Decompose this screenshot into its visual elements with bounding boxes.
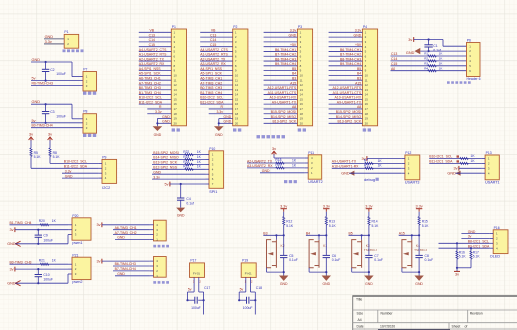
label below P2 bbox=[233, 128, 241, 131]
svg-text:R23: R23 bbox=[183, 155, 189, 159]
resistor R23 1K bbox=[185, 158, 193, 160]
svg-text:R20: R20 bbox=[39, 219, 45, 223]
wire P4 pin5 bbox=[329, 50, 363, 52]
resistor R13 5.1K bbox=[325, 212, 327, 217]
wire 3v row (pwm1) bbox=[15, 229, 68, 231]
wire gate row (K3) bbox=[349, 234, 369, 236]
svg-text:5v: 5v bbox=[32, 119, 36, 123]
svg-text:A3-USART2_RX: A3-USART2_RX bbox=[200, 62, 226, 66]
label below P1 bbox=[172, 128, 180, 131]
svg-text:TS865CJ: TS865CJ bbox=[414, 248, 427, 252]
svg-text:12: 12 bbox=[300, 83, 304, 87]
wire P4 pin20 bbox=[329, 122, 363, 124]
svg-text:R19: R19 bbox=[275, 163, 281, 167]
ground below P1 bbox=[153, 126, 163, 131]
label below P14 bbox=[153, 245, 169, 248]
svg-text:Sheet: Sheet bbox=[452, 324, 461, 328]
ground (K3) bbox=[364, 276, 373, 281]
svg-text:C15: C15 bbox=[149, 43, 155, 47]
wire P3 pin11 bbox=[264, 79, 298, 81]
wire P1 pin20 bbox=[157, 122, 171, 124]
wire P3 pin9 bbox=[264, 70, 298, 72]
label below P4 bbox=[363, 128, 371, 131]
svg-text:R25: R25 bbox=[183, 165, 189, 169]
wire P4 pin9 bbox=[329, 70, 363, 72]
svg-text:B10-I2C1_SCL: B10-I2C1_SCL bbox=[429, 155, 452, 159]
svg-text:GND: GND bbox=[32, 100, 41, 104]
svg-text:10/7/2020: 10/7/2020 bbox=[380, 324, 395, 328]
resistor R4 1K bbox=[391, 70, 467, 72]
svg-text:3v: 3v bbox=[29, 132, 33, 137]
svg-text:A7-TIM3_CH2: A7-TIM3_CH2 bbox=[200, 81, 222, 85]
svg-text:3v: 3v bbox=[272, 146, 276, 151]
transistor K1 bbox=[309, 240, 319, 268]
label below P7 bbox=[83, 92, 96, 95]
svg-text:B1-TIM3_CH4: B1-TIM3_CH4 bbox=[139, 91, 161, 95]
wire P17 pin2 bbox=[198, 277, 200, 292]
wire B7-TIM4-CH4 bbox=[113, 270, 150, 272]
wire P4 pin14 bbox=[329, 94, 363, 96]
junction C4 bbox=[180, 183, 182, 185]
svg-text:B5: B5 bbox=[357, 67, 361, 71]
wire P3 pin6 bbox=[264, 55, 298, 57]
caption minimal system base bbox=[257, 135, 286, 138]
svg-text:A6-TIM3_CH1: A6-TIM3_CH1 bbox=[115, 226, 137, 230]
svg-text:A11-USART1-CTS: A11-USART1-CTS bbox=[333, 91, 362, 95]
svg-text:B7-TIM4-CH2: B7-TIM4-CH2 bbox=[275, 53, 296, 57]
svg-text:5.1K: 5.1K bbox=[286, 224, 294, 228]
svg-text:B3: B3 bbox=[263, 232, 267, 236]
wire P1 pin1 bbox=[139, 31, 172, 33]
wire P1 ground drop bbox=[156, 119, 158, 127]
transistor K3 TS865CJ bbox=[352, 240, 362, 268]
wire P4 pin19 bbox=[329, 118, 363, 120]
capacitor C8 0.1uF bbox=[418, 235, 420, 255]
svg-text:FY-01: FY-01 bbox=[245, 272, 252, 276]
svg-text:GND: GND bbox=[280, 282, 288, 286]
resistor R24 1K bbox=[185, 163, 193, 165]
wire B6-TIM4-CH3 bbox=[113, 265, 150, 267]
svg-text:A1-USART2_RTS: A1-USART2_RTS bbox=[200, 53, 228, 57]
svg-text:20: 20 bbox=[174, 121, 178, 125]
svg-text:B11-I2C2_SDA: B11-I2C2_SDA bbox=[200, 100, 224, 104]
svg-text:3v: 3v bbox=[48, 132, 52, 137]
svg-text:B14-SPI2_MISO: B14-SPI2_MISO bbox=[153, 156, 179, 160]
svg-text:5v: 5v bbox=[165, 182, 169, 186]
wire emitter row (K4) bbox=[401, 268, 403, 272]
svg-text:C9: C9 bbox=[43, 234, 47, 238]
svg-text:Revision: Revision bbox=[470, 311, 483, 315]
wire 3v row (pwm2) bbox=[15, 268, 68, 270]
resistor R15 5.1K bbox=[418, 212, 420, 217]
svg-text:A4-USART2_CTS: A4-USART2_CTS bbox=[139, 48, 167, 52]
wire P2 pin3 bbox=[200, 41, 233, 43]
wire P3 pin19 bbox=[264, 118, 298, 120]
svg-text:R21: R21 bbox=[39, 259, 45, 263]
svg-text:GND: GND bbox=[154, 133, 162, 137]
wire P2 pin14 bbox=[200, 94, 233, 96]
wire 3v to P16 pin2 bbox=[461, 237, 489, 239]
svg-text:Header 6: Header 6 bbox=[467, 77, 481, 81]
svg-text:P1: P1 bbox=[64, 30, 68, 34]
wire P2 pin8 bbox=[200, 65, 233, 67]
svg-text:GND: GND bbox=[341, 172, 350, 176]
wire P1 pin15 bbox=[139, 98, 172, 100]
svg-text:GND: GND bbox=[162, 120, 170, 124]
svg-text:C18: C18 bbox=[256, 286, 262, 290]
svg-text:13: 13 bbox=[300, 88, 304, 92]
svg-text:B3: B3 bbox=[357, 77, 361, 81]
capacitor C5 0.1uF bbox=[283, 235, 285, 255]
svg-text:GND: GND bbox=[224, 115, 232, 119]
capacitor C2 100uF bbox=[45, 62, 47, 69]
svg-text:C6: C6 bbox=[332, 254, 336, 258]
wire P4 pin18 bbox=[329, 113, 363, 115]
svg-text:5.1K: 5.1K bbox=[329, 224, 337, 228]
wire P1 pin8 bbox=[139, 65, 172, 67]
svg-text:100uF: 100uF bbox=[43, 278, 53, 282]
wire A7-TIM3_CH2 bbox=[113, 234, 150, 236]
wire P2 pin15 bbox=[200, 98, 233, 100]
svg-text:11: 11 bbox=[174, 78, 177, 82]
wire P4 pin7 bbox=[329, 60, 363, 62]
wire 5v to P10 bbox=[170, 183, 206, 185]
svg-text:C10: C10 bbox=[43, 273, 49, 277]
wire P4 pin13 bbox=[329, 89, 363, 91]
svg-text:R2: R2 bbox=[424, 57, 428, 61]
svg-text:15: 15 bbox=[174, 98, 178, 102]
svg-text:Title: Title bbox=[356, 298, 362, 302]
wire P1 pin13 bbox=[139, 89, 172, 91]
svg-text:VB: VB bbox=[211, 29, 216, 33]
svg-text:R22: R22 bbox=[183, 150, 189, 154]
svg-text:USART2: USART2 bbox=[308, 180, 322, 184]
svg-text:3.3v: 3.3v bbox=[153, 175, 160, 179]
svg-text:19: 19 bbox=[174, 117, 178, 121]
svg-text:P17: P17 bbox=[190, 259, 196, 263]
wire to ground (K4) bbox=[418, 272, 420, 275]
wire 3v to P6 pin1 bbox=[414, 39, 443, 41]
wire P17 pin1 bbox=[193, 277, 195, 292]
svg-text:GND: GND bbox=[322, 282, 330, 286]
svg-text:C5: C5 bbox=[289, 254, 293, 258]
svg-text:0.1uF: 0.1uF bbox=[332, 258, 341, 262]
wire GND to P10 bbox=[152, 173, 206, 175]
label below P15 bbox=[153, 281, 169, 284]
svg-text:B0-TIM3-CH4: B0-TIM3-CH4 bbox=[32, 124, 53, 128]
svg-text:3.3v: 3.3v bbox=[323, 204, 330, 208]
wire 3v to P14 pin4 bbox=[102, 224, 150, 226]
svg-text:3v: 3v bbox=[408, 38, 412, 42]
svg-text:100uF: 100uF bbox=[191, 306, 201, 310]
svg-text:A2-USART2_TX: A2-USART2_TX bbox=[139, 57, 165, 61]
resistor R22 1K bbox=[185, 154, 193, 156]
caption IO breakout bbox=[447, 81, 471, 84]
resistor R16 5.1K bbox=[456, 243, 458, 251]
svg-text:B8-TIM4-CH3: B8-TIM4-CH3 bbox=[275, 57, 296, 61]
svg-text:B7-TIM4-CH2: B7-TIM4-CH2 bbox=[340, 53, 361, 57]
svg-text:A5-SPI1_SCK: A5-SPI1_SCK bbox=[139, 72, 161, 76]
svg-text:B10-I2C2_SCL: B10-I2C2_SCL bbox=[139, 96, 162, 100]
svg-text:3.3v: 3.3v bbox=[290, 29, 297, 33]
svg-text:GND: GND bbox=[406, 51, 415, 55]
wire P4 pin15 bbox=[329, 98, 363, 100]
svg-text:18: 18 bbox=[174, 112, 178, 116]
svg-text:GND: GND bbox=[354, 33, 362, 37]
svg-text:B4: B4 bbox=[306, 232, 310, 236]
capacitor C9 100uF bbox=[37, 230, 39, 235]
svg-text:A12-USART1-RTS: A12-USART1-RTS bbox=[267, 86, 296, 90]
wire P1 pin10 bbox=[139, 74, 172, 76]
resistor (SDA) 1K bbox=[429, 162, 481, 164]
resistor R8 5.1K bbox=[49, 140, 51, 148]
svg-text:3v: 3v bbox=[97, 223, 101, 227]
svg-text:17: 17 bbox=[365, 107, 369, 111]
wire P1 pin14 bbox=[139, 94, 172, 96]
svg-text:GND: GND bbox=[32, 58, 41, 62]
svg-text:C8: C8 bbox=[425, 254, 429, 258]
wire 3v to P15 pin4 bbox=[102, 260, 150, 262]
svg-text:3.3v: 3.3v bbox=[365, 204, 372, 208]
resistor R3 1K bbox=[391, 65, 467, 67]
svg-text:B11-I2C2_SDA: B11-I2C2_SDA bbox=[64, 165, 88, 169]
svg-text:GND: GND bbox=[7, 242, 16, 246]
wire 3v to P13 pin3 bbox=[459, 167, 482, 169]
svg-text:5.1K: 5.1K bbox=[34, 155, 42, 159]
svg-text:I2C2: I2C2 bbox=[102, 186, 110, 190]
resistor R12 5.1K bbox=[283, 212, 285, 217]
svg-text:A4-SPI1_NSS: A4-SPI1_NSS bbox=[139, 67, 161, 71]
svg-text:3v: 3v bbox=[10, 228, 14, 232]
svg-text:Date: Date bbox=[357, 324, 364, 328]
wire P2 pin13 bbox=[200, 89, 233, 91]
wire P1 pin7 bbox=[139, 60, 172, 62]
svg-text:P8: P8 bbox=[83, 110, 87, 114]
wire P2 pin2 bbox=[200, 36, 233, 38]
svg-text:0.1uF: 0.1uF bbox=[374, 258, 383, 262]
wire emitter row (K3) bbox=[351, 268, 353, 272]
wire GND to P1 pin1 bbox=[44, 38, 64, 40]
svg-text:3.3v: 3.3v bbox=[45, 40, 52, 44]
svg-text:17: 17 bbox=[300, 107, 304, 111]
svg-text:12: 12 bbox=[174, 83, 178, 87]
svg-text:10: 10 bbox=[235, 74, 239, 78]
wire P3 pin20 bbox=[264, 122, 298, 124]
svg-text:A7-TIM3_CH2: A7-TIM3_CH2 bbox=[115, 231, 137, 235]
svg-text:A5-SPI1_SCK: A5-SPI1_SCK bbox=[200, 72, 222, 76]
capacitor C1 0.1uf bbox=[428, 40, 430, 45]
svg-text:B3: B3 bbox=[292, 77, 296, 81]
svg-text:+5V: +5V bbox=[355, 43, 362, 47]
svg-text:B0-TIM3_CH3: B0-TIM3_CH3 bbox=[10, 260, 32, 264]
svg-text:B8-TIM4-CH3: B8-TIM4-CH3 bbox=[340, 57, 361, 61]
wire pullup rail (OLED) bbox=[457, 267, 471, 269]
svg-text:20: 20 bbox=[300, 121, 304, 125]
svg-text:R1: R1 bbox=[424, 52, 428, 56]
wire P1 pin4 bbox=[139, 46, 172, 48]
ground (K4) bbox=[414, 276, 423, 281]
wire P3 pin5 bbox=[264, 50, 298, 52]
title block frame bbox=[353, 295, 517, 330]
svg-text:GND: GND bbox=[415, 282, 423, 286]
svg-text:3.3v: 3.3v bbox=[280, 204, 287, 208]
wire GND to P13 pin4 bbox=[456, 172, 482, 174]
wire B0-TIM3-CH4 (P8) bbox=[31, 127, 83, 129]
svg-text:R7: R7 bbox=[364, 159, 368, 163]
svg-text:B0-TIM3_CH3: B0-TIM3_CH3 bbox=[139, 86, 161, 90]
svg-text:13: 13 bbox=[174, 88, 178, 92]
svg-text:P11: P11 bbox=[308, 151, 314, 155]
wire P2 pin17 bbox=[209, 108, 233, 110]
svg-text:10: 10 bbox=[365, 74, 369, 78]
svg-text:A12-USART1-RTS: A12-USART1-RTS bbox=[332, 86, 361, 90]
svg-text:C4: C4 bbox=[186, 197, 190, 201]
svg-text:3.3v: 3.3v bbox=[416, 204, 423, 208]
wire P4 pin3 bbox=[329, 41, 363, 43]
svg-text:A7-TIM3_CH2: A7-TIM3_CH2 bbox=[139, 81, 161, 85]
svg-text:B13-SPI2_SCK: B13-SPI2_SCK bbox=[153, 161, 177, 165]
svg-text:100uF: 100uF bbox=[56, 72, 66, 76]
junction C1 bbox=[428, 38, 430, 40]
svg-text:B6-TIM4-CH1: B6-TIM4-CH1 bbox=[340, 48, 361, 52]
svg-text:3v: 3v bbox=[97, 260, 101, 264]
svg-text:11: 11 bbox=[235, 78, 238, 82]
svg-text:Number: Number bbox=[381, 311, 394, 315]
resistor R17 5.1K bbox=[470, 248, 472, 251]
svg-text:B14-SPI2_MISO: B14-SPI2_MISO bbox=[271, 115, 297, 119]
svg-text:GND: GND bbox=[215, 133, 223, 137]
wire GND (P15) bbox=[115, 275, 150, 277]
label 3v power supply bbox=[63, 49, 84, 52]
wire emitter row (K1) bbox=[308, 268, 310, 272]
resistor R14 5.1K bbox=[368, 212, 370, 217]
svg-text:15: 15 bbox=[300, 98, 304, 102]
svg-text:OLED: OLED bbox=[490, 255, 501, 259]
svg-text:GND: GND bbox=[117, 236, 125, 240]
resistor R5 5.1K bbox=[30, 140, 32, 148]
wire P3 pin3 bbox=[264, 41, 298, 43]
svg-text:14: 14 bbox=[174, 93, 178, 97]
svg-text:SPI1: SPI1 bbox=[209, 190, 217, 194]
wire B15-SPI2_MOSI to P10 bbox=[152, 154, 206, 156]
svg-text:3v: 3v bbox=[455, 273, 459, 277]
wire P3 pin2 bbox=[264, 36, 298, 38]
wire R6-TIM3-CH3 (P7) bbox=[31, 85, 83, 87]
svg-text:A9-USART1-TX: A9-USART1-TX bbox=[337, 100, 362, 104]
svg-text:12: 12 bbox=[235, 83, 239, 87]
svg-text:100uF: 100uF bbox=[56, 114, 66, 118]
svg-text:17: 17 bbox=[235, 107, 239, 111]
svg-text:GND: GND bbox=[162, 115, 170, 119]
svg-text:A4-USART2_CTS: A4-USART2_CTS bbox=[200, 48, 228, 52]
svg-text:16: 16 bbox=[365, 102, 369, 106]
wire gate row (K1) bbox=[306, 234, 326, 236]
wire P2 pin1 bbox=[200, 31, 233, 33]
svg-text:0.1uF: 0.1uF bbox=[289, 258, 298, 262]
svg-text:B13-SPI2_SCK: B13-SPI2_SCK bbox=[272, 120, 296, 124]
wire 3.3v to P1 pin2 bbox=[44, 43, 64, 45]
svg-text:A15: A15 bbox=[290, 81, 296, 85]
svg-text:B9-TIM4-CH4: B9-TIM4-CH4 bbox=[340, 62, 361, 66]
wire GND row (pwm2) bbox=[15, 282, 68, 284]
svg-text:P7: P7 bbox=[83, 67, 87, 71]
wire P2 pin18 bbox=[209, 113, 233, 115]
svg-text:R6-TIM3-CH3: R6-TIM3-CH3 bbox=[32, 81, 53, 85]
svg-text:C14: C14 bbox=[149, 38, 155, 42]
svg-text:16: 16 bbox=[300, 102, 304, 106]
wire SDA to P16 pin4 bbox=[439, 247, 490, 249]
svg-text:13: 13 bbox=[235, 88, 239, 92]
wire P3 pin16 bbox=[264, 103, 298, 105]
svg-text:B1-TIM3_CH4: B1-TIM3_CH4 bbox=[200, 91, 222, 95]
wire 5v (P7) bbox=[31, 80, 83, 82]
resistor R1 1K bbox=[391, 55, 467, 57]
svg-text:11: 11 bbox=[300, 78, 303, 82]
wire P2 ground drop bbox=[218, 119, 220, 127]
svg-text:B10-I2C2_SCL: B10-I2C2_SCL bbox=[64, 160, 87, 164]
svg-text:A3-USART2_RX: A3-USART2_RX bbox=[139, 62, 165, 66]
wire P3 pin15 bbox=[264, 98, 298, 100]
wire P3 pin14 bbox=[264, 94, 298, 96]
svg-text:pwm2: pwm2 bbox=[72, 280, 82, 284]
title block text bbox=[356, 298, 483, 329]
resistor R18 1K bbox=[247, 162, 305, 164]
svg-text:5v: 5v bbox=[240, 288, 244, 292]
resistor R19 1K bbox=[247, 167, 305, 169]
wire P2 pin20 bbox=[219, 122, 233, 124]
ground below P2 bbox=[214, 126, 224, 131]
svg-text:R11: R11 bbox=[364, 164, 370, 168]
svg-text:5.1K: 5.1K bbox=[459, 255, 467, 259]
wire P1 pin18 bbox=[147, 113, 171, 115]
svg-text:12: 12 bbox=[365, 83, 369, 87]
svg-text:3.3v: 3.3v bbox=[216, 110, 223, 114]
resistor R20 1K bbox=[10, 224, 69, 226]
svg-text:C13: C13 bbox=[210, 33, 216, 37]
svg-text:P10: P10 bbox=[209, 147, 215, 151]
wire SDA to P9 bbox=[31, 167, 99, 169]
svg-text:14: 14 bbox=[235, 93, 239, 97]
svg-text:18: 18 bbox=[365, 112, 369, 116]
wire emitter row (K2) bbox=[266, 268, 268, 272]
svg-text:GND: GND bbox=[7, 282, 16, 286]
wire 5v (P8) bbox=[31, 122, 83, 124]
svg-text:R24: R24 bbox=[183, 160, 189, 164]
svg-text:P13: P13 bbox=[486, 151, 492, 155]
wire SCL to P9 bbox=[50, 162, 99, 164]
wire P19 pin2 bbox=[250, 277, 252, 292]
svg-text:GND: GND bbox=[365, 282, 373, 286]
svg-text:B12-SPI2_NSS: B12-SPI2_NSS bbox=[153, 166, 177, 170]
svg-text:A4: A4 bbox=[358, 318, 362, 322]
wire P2 pin4 bbox=[200, 46, 233, 48]
wire P4 pin8 bbox=[329, 65, 363, 67]
svg-text:GND: GND bbox=[153, 170, 161, 174]
svg-text:P16: P16 bbox=[494, 226, 500, 230]
transistor K4 TS865CJ bbox=[402, 240, 412, 268]
svg-text:A11-USART1-CTS: A11-USART1-CTS bbox=[268, 91, 297, 95]
svg-text:P20: P20 bbox=[72, 214, 78, 218]
svg-text:A8: A8 bbox=[292, 105, 296, 109]
wire P19 pin1 bbox=[245, 277, 247, 292]
svg-text:debug: debug bbox=[364, 177, 375, 182]
power 3v down (OLED) bbox=[456, 268, 458, 271]
svg-text:VB: VB bbox=[150, 29, 155, 33]
svg-text:C17: C17 bbox=[204, 286, 210, 290]
wire GND to P6 pin2 bbox=[420, 50, 466, 52]
wire P3 pin12 bbox=[264, 84, 298, 86]
wire P2 pin7 bbox=[200, 60, 233, 62]
